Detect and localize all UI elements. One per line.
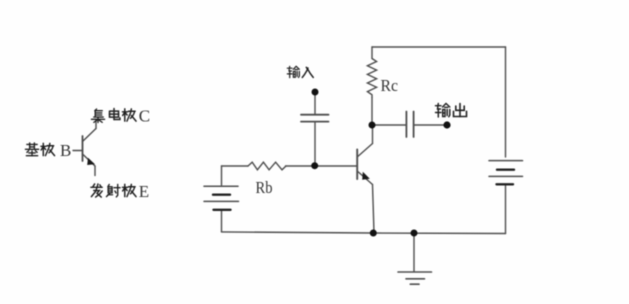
svg-text:B: B bbox=[60, 141, 71, 160]
svg-text:Rb: Rb bbox=[256, 178, 273, 197]
svg-text:C: C bbox=[139, 107, 150, 126]
svg-text:Rc: Rc bbox=[381, 76, 399, 95]
svg-text:E: E bbox=[139, 182, 149, 201]
